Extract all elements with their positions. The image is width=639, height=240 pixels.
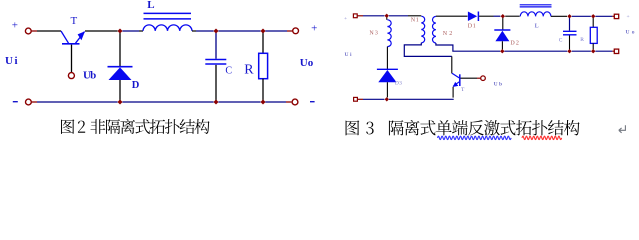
svg-text:R: R (580, 37, 584, 43)
svg-text:Ui: Ui (5, 55, 18, 67)
svg-text:D2: D2 (510, 40, 519, 46)
svg-text:Uo: Uo (626, 30, 635, 36)
svg-text:T: T (461, 87, 465, 93)
svg-text:+: + (344, 16, 347, 22)
svg-text:T: T (71, 15, 78, 27)
svg-text:N1: N1 (411, 18, 419, 24)
svg-text:L: L (535, 24, 539, 30)
svg-text:N3: N3 (369, 30, 378, 36)
svg-text:+: + (311, 23, 317, 35)
svg-text:C: C (559, 38, 563, 44)
svg-text:Ub: Ub (83, 69, 96, 81)
svg-text:+: + (626, 14, 629, 20)
svg-text:D: D (132, 80, 140, 91)
svg-text:D3: D3 (395, 81, 402, 87)
svg-text:Uo: Uo (300, 57, 314, 69)
svg-text:+: + (12, 19, 18, 31)
svg-text:N2: N2 (443, 31, 453, 37)
svg-text:D1: D1 (468, 23, 476, 29)
svg-text:Ui: Ui (345, 52, 352, 58)
svg-text:Ub: Ub (494, 81, 503, 87)
svg-text:C: C (225, 66, 232, 77)
svg-text:R: R (244, 63, 254, 78)
svg-text:L: L (147, 0, 154, 11)
